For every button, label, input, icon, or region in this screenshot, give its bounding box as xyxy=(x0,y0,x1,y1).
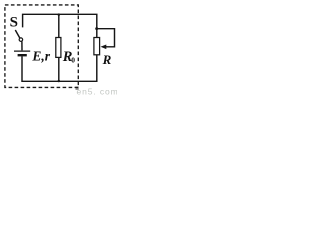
node: junction dot right branch / slider xyxy=(95,27,98,30)
svg-text:S: S xyxy=(10,14,18,30)
wire: slider loop right and down xyxy=(97,29,115,47)
resistor R body (rheostat) xyxy=(94,38,100,55)
wire: R0 branch from top rail xyxy=(58,14,60,37)
wire: switch to battery xyxy=(21,41,23,50)
wire: top rail from switch corner to right branch corner, down to rheostat top xyxy=(23,14,97,37)
svg-text:0: 0 xyxy=(71,56,75,65)
dashed battery-box enclosure xyxy=(5,5,78,88)
rheostat slider arrowhead xyxy=(101,45,107,50)
battery E,r long plate xyxy=(14,50,30,52)
wire: R0 to bottom rail xyxy=(58,57,60,81)
battery E,r short thick plate xyxy=(18,54,27,56)
svg-text:R: R xyxy=(102,52,112,67)
svg-text:en5. com: en5. com xyxy=(77,86,118,96)
node: junction dot top rail / R0 xyxy=(58,13,61,16)
resistor R0 body xyxy=(56,38,61,58)
node: junction dot bottom rail / R0 xyxy=(58,80,61,83)
switch S blade xyxy=(15,30,19,38)
background xyxy=(0,0,117,96)
switch S pivot circle xyxy=(19,38,23,42)
wire: battery down, bottom rail, up right side to rheostat bottom xyxy=(22,55,97,81)
svg-text:E,r: E,r xyxy=(31,48,50,63)
